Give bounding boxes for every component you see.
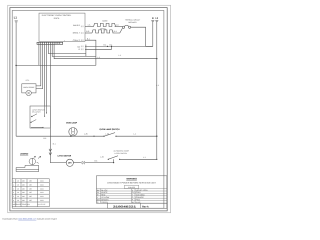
svg-text:1: 1: [64, 39, 65, 42]
svg-text:LATCH MOTOR: LATCH MOTOR: [58, 154, 72, 157]
svg-text:BREAKER: BREAKER: [128, 21, 137, 24]
svg-text:L-1: L-1: [143, 156, 146, 159]
svg-text:OVEN PROBE: OVEN PROBE: [23, 86, 35, 89]
svg-text:LEGEND: LEGEND: [20, 153, 29, 156]
svg-text:B-4: B-4: [104, 44, 107, 47]
svg-text:EOC6: EOC6: [54, 17, 60, 20]
svg-text:BAKE: BAKE: [103, 20, 109, 23]
svg-text:L-2: L-2: [98, 56, 101, 59]
svg-text:OVEN LAMP SWITCH: OVEN LAMP SWITCH: [100, 128, 121, 131]
svg-text:L1: L1: [14, 16, 18, 20]
svg-text:B-1: B-1: [87, 37, 90, 40]
svg-text:OVEN LAMP: OVEN LAMP: [66, 122, 78, 125]
svg-text:CONV P: CONV P: [73, 39, 81, 42]
svg-text:B-1: B-1: [53, 143, 56, 146]
svg-text:Downloaded from www.Manualslib: Downloaded from www.Manualslib.com manua…: [3, 217, 57, 220]
svg-text:LATCH SWITCH: LATCH SWITCH: [115, 152, 128, 155]
svg-text:318046221: 318046221: [113, 205, 137, 208]
svg-text:B-6: B-6: [95, 160, 98, 163]
svg-text:BROIL T: BROIL T: [73, 32, 81, 35]
svg-text:B-6: B-6: [44, 137, 47, 140]
svg-text:ELECTRONIC OVEN CONTROL: ELECTRONIC OVEN CONTROL: [42, 14, 72, 17]
svg-text:L-35: L-35: [84, 133, 88, 136]
svg-text:B-4: B-4: [110, 44, 113, 47]
svg-text:Rev A: Rev A: [142, 205, 149, 208]
svg-text:B-3: B-3: [114, 30, 117, 33]
svg-text:WARNING: WARNING: [126, 178, 137, 181]
svg-text:L-2: L-2: [156, 84, 159, 87]
svg-text:L-2: L-2: [119, 54, 122, 57]
svg-text:L-35: L-35: [100, 156, 104, 159]
svg-text:L-1: L-1: [134, 132, 137, 135]
svg-text:COLORS: COLORS: [128, 186, 136, 189]
svg-text:L-35: L-35: [106, 132, 110, 135]
svg-text:DISCONNECT POWER BEFORE SERVIC: DISCONNECT POWER BEFORE SERVICING UNIT: [107, 182, 156, 185]
svg-text:BAKE R: BAKE R: [73, 24, 81, 27]
svg-text:ON LATCH: ON LATCH: [32, 111, 41, 114]
svg-text:ST-1: ST-1: [26, 79, 30, 82]
